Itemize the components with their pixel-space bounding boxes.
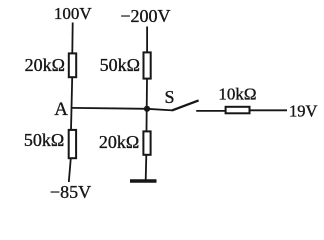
svg-text:20kΩ: 20kΩ <box>25 55 65 75</box>
svg-text:19V: 19V <box>289 101 318 120</box>
svg-text:A: A <box>54 99 68 120</box>
svg-text:S: S <box>164 87 174 107</box>
svg-text:50kΩ: 50kΩ <box>100 55 140 75</box>
svg-text:50kΩ: 50kΩ <box>24 130 64 150</box>
svg-text:100V: 100V <box>54 4 93 23</box>
svg-text:−85V: −85V <box>50 182 91 202</box>
svg-text:−200V: −200V <box>120 6 170 26</box>
svg-text:10kΩ: 10kΩ <box>218 85 256 104</box>
svg-text:20kΩ: 20kΩ <box>99 132 139 152</box>
